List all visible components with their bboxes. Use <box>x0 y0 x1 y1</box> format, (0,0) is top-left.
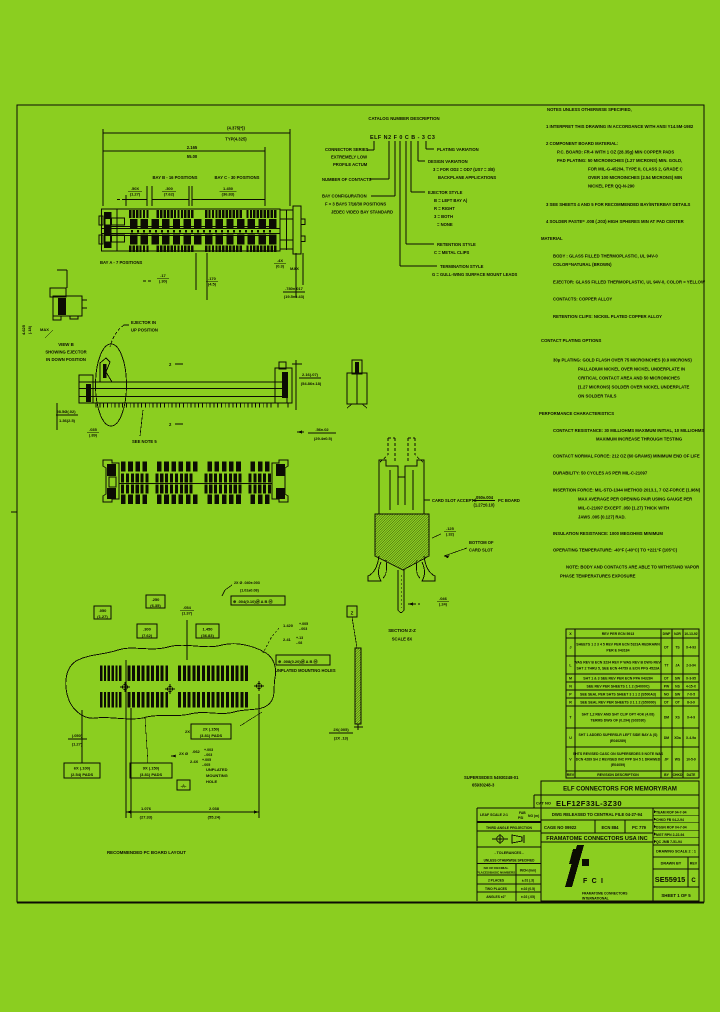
svg-text:SCALE 8X: SCALE 8X <box>392 637 413 642</box>
svg-text:N: N <box>569 685 572 689</box>
svg-text:SEE SEAL PER SHTS SHEET 3 1 1: SEE SEAL PER SHTS SHEET 3 1 1 2 (S500A3) <box>580 693 656 697</box>
svg-text:MAX: MAX <box>290 266 299 271</box>
svg-text:IN DOWN POSITION: IN DOWN POSITION <box>46 357 86 362</box>
svg-text:SE55915: SE55915 <box>655 875 685 884</box>
bottom view top pad row <box>121 462 270 472</box>
svg-text:(.050): (.050) <box>72 733 83 738</box>
svg-text:SEE REV PER SHEETS 1 1 2 (S400: SEE REV PER SHEETS 1 1 2 (S4000C) <box>586 685 649 689</box>
drawing scale row <box>653 845 699 857</box>
svg-text:OPERATING TEMPERATURE: -40°F (: OPERATING TEMPERATURE: -40°F (-40°C) TO … <box>553 548 678 553</box>
svg-text:COLOR=NATURAL (BROWN): COLOR=NATURAL (BROWN) <box>553 262 612 267</box>
svg-text:(7.62): (7.62) <box>164 191 175 196</box>
svg-text:BACKPLANE APPLICATIONS: BACKPLANE APPLICATIONS <box>438 175 496 180</box>
svg-text:(27.33): (27.33) <box>140 815 153 820</box>
svg-text:TERMS DWG OF (0.294) (S02030): TERMS DWG OF (0.294) (S02030) <box>590 718 645 722</box>
svg-text:+.13: +.13 <box>296 636 303 640</box>
svg-text:-.08: -.08 <box>296 641 302 645</box>
svg-text:DCN 4289 SH 2 REVISED INC PPP: DCN 4289 SH 2 REVISED INC PPP SH 5 1 DRA… <box>576 758 661 762</box>
svg-text:55.00: 55.00 <box>187 154 198 159</box>
svg-text:3 = BOTH: 3 = BOTH <box>434 214 453 219</box>
svg-text:JA: JA <box>675 664 680 668</box>
svg-text:MATERIAL: MATERIAL <box>541 236 563 241</box>
svg-text:MAX: MAX <box>40 327 49 332</box>
svg-text:THIRD ANGLE PROJECTION: THIRD ANGLE PROJECTION <box>486 826 533 830</box>
svg-text:28.5Ø(.02): 28.5Ø(.02) <box>56 409 76 414</box>
svg-text:CONTACT NORMAL FORCE: 212 OZ (: CONTACT NORMAL FORCE: 212 OZ (60 GRAMS) … <box>553 454 700 459</box>
svg-text:INCH (mm): INCH (mm) <box>520 869 536 873</box>
dwg released line <box>552 812 643 817</box>
svg-text:WAS REV B ECN 3234 REV P WAS R: WAS REV B ECN 3234 REV P WAS REV B DWG R… <box>574 661 662 665</box>
supersedes note <box>464 775 519 788</box>
svg-text:BAY C - 30 POSITIONS: BAY C - 30 POSITIONS <box>215 175 260 180</box>
dim .035 <box>87 427 99 438</box>
svg-text:QC JMB 7-51-94: QC JMB 7-51-94 <box>656 840 682 844</box>
svg-text:DRAWN BY: DRAWN BY <box>661 862 682 866</box>
svg-text:1.36(2.5): 1.36(2.5) <box>59 418 76 423</box>
svg-text:INSERTION FORCE: MIL-STD-1344: INSERTION FORCE: MIL-STD-1344 METHOD 201… <box>553 488 701 493</box>
svg-text:+.005: +.005 <box>202 758 211 762</box>
svg-text:RETENTION CLIPS: NICKEL PLATED: RETENTION CLIPS: NICKEL PLATED COPPER AL… <box>553 314 662 319</box>
svg-text:-.003: -.003 <box>204 753 212 757</box>
notes column <box>539 107 705 579</box>
svg-text:(19.5±0.43): (19.5±0.43) <box>284 294 305 299</box>
svg-text:+.003: +.003 <box>204 748 213 752</box>
svg-text:(6.35): (6.35) <box>150 603 161 608</box>
svg-text:FRAMATOME CONNECTORS USA INC: FRAMATOME CONNECTORS USA INC <box>546 836 647 842</box>
svg-text:UNLESS OTHERWISE SPECIFIED: UNLESS OTHERWISE SPECIFIED <box>484 859 535 863</box>
mounting hole target left <box>120 682 130 692</box>
dim .054 <box>180 605 194 660</box>
svg-text:EJECTOR STYLE: EJECTOR STYLE <box>428 190 463 195</box>
boxed dim .250 <box>146 595 165 660</box>
svg-text:1 INTERPRET THIS DRAWING IN: 1 INTERPRET THIS DRAWING IN ACCORDANCE W… <box>546 124 694 129</box>
svg-text:INTERNATIONAL: INTERNATIONAL <box>582 897 609 901</box>
svg-text:J: J <box>570 646 572 650</box>
svg-text:JP: JP <box>664 758 669 762</box>
svg-text:C: C <box>691 878 696 884</box>
svg-text:(54.86±.18): (54.86±.18) <box>301 381 322 386</box>
bay B label <box>153 175 198 180</box>
svg-text:R = RIGHT: R = RIGHT <box>434 206 455 211</box>
svg-text:CONTACT RESISTANCE: 30 MILLIOH: CONTACT RESISTANCE: 30 MILLIOHMS MAXIMUM… <box>553 428 704 433</box>
svg-text:(7.62): (7.62) <box>142 633 153 638</box>
top view pin band lower small <box>129 246 276 253</box>
svg-text:PROFILE ACTUM: PROFILE ACTUM <box>333 162 368 167</box>
svg-text:ANGLES ±2°: ANGLES ±2° <box>486 895 506 899</box>
svg-text:NS: NS <box>675 685 680 689</box>
part number ELF N2 F 0 C B - 3 C3 <box>370 135 435 141</box>
svg-text:(2X .13): (2X .13) <box>334 736 349 741</box>
svg-text:X-4-9: X-4-9 <box>687 716 695 720</box>
drawing border frame <box>11 105 704 903</box>
svg-text:BAY B - 16 POSITIONS: BAY B - 16 POSITIONS <box>153 175 198 180</box>
dim 2X hole top <box>222 581 260 596</box>
bay C label <box>215 175 260 180</box>
cat no line <box>536 799 622 808</box>
svg-text:+.005: +.005 <box>299 622 308 626</box>
section Z-Z housing top <box>379 460 424 514</box>
svg-text:DM: DM <box>664 716 669 720</box>
svg-text:LEAF SCALE 2:1: LEAF SCALE 2:1 <box>480 813 508 817</box>
drawn by row <box>653 857 699 887</box>
side view right end <box>275 362 292 408</box>
svg-text:BAY A - 7 POSITIONS: BAY A - 7 POSITIONS <box>100 260 142 265</box>
svg-text:±.02 (0.5): ±.02 (0.5) <box>521 887 535 891</box>
svg-text:.300: .300 <box>143 627 152 632</box>
leader plating variation <box>426 141 479 152</box>
svg-text:UNPLATED: UNPLATED <box>206 767 228 772</box>
svg-text:1.420: 1.420 <box>283 623 294 628</box>
dim .780/(19.5) <box>283 253 305 299</box>
svg-text:(4.375(*)): (4.375(*)) <box>227 126 245 131</box>
svg-text:6X (.100): 6X (.100) <box>74 766 91 771</box>
svg-text:30μ PLATING: GOLD FLASH OVER 7: 30μ PLATING: GOLD FLASH OVER 75 MICROINC… <box>553 358 692 363</box>
dim 4.625 max vertical <box>21 320 53 338</box>
leader number of contacts <box>322 141 389 182</box>
svg-text:2.41: 2.41 <box>283 637 292 642</box>
svg-text:(2.54) PADS: (2.54) PADS <box>71 772 94 777</box>
view B caption <box>45 342 86 362</box>
dim 4.375 overall <box>103 126 290 207</box>
svg-text:SHT 1 & 3 SEE REV PER ECN PPA: SHT 1 & 3 SEE REV PER ECN PPA 043284 <box>583 677 652 681</box>
bottom view bottom pad row <box>121 495 270 505</box>
card slot accepts label <box>424 495 520 508</box>
fcf top <box>231 596 285 605</box>
svg-text:CATALOG NUMBER DESCRIPTION: CATALOG NUMBER DESCRIPTION <box>368 116 439 121</box>
svg-text:CAGE NO 09922: CAGE NO 09922 <box>544 825 577 830</box>
svg-text:JAWS .005 (0.127) RAD.: JAWS .005 (0.127) RAD. <box>578 515 626 520</box>
svg-text:HOLE: HOLE <box>206 779 217 784</box>
svg-text:CONTACT PLATING OPTIONS: CONTACT PLATING OPTIONS <box>541 338 601 343</box>
svg-text:(.32): (.32) <box>446 531 455 536</box>
svg-text:10-13-92: 10-13-92 <box>684 632 697 636</box>
FCI logo <box>565 845 628 901</box>
leader connector series <box>325 141 374 167</box>
section Z-Z hatched body <box>375 514 429 570</box>
svg-text:SEE NOTE 5: SEE NOTE 5 <box>132 439 157 444</box>
svg-text:SHEET 1 OF 5: SHEET 1 OF 5 <box>661 893 691 898</box>
leader bay configuration <box>322 141 395 215</box>
svg-text:PSI: PSI <box>518 816 523 820</box>
svg-text:PER E 043184: PER E 043184 <box>606 648 629 652</box>
svg-text:DWG RELEASED TO CENTRAL FILE 0: DWG RELEASED TO CENTRAL FILE 04-27-94 <box>552 812 643 817</box>
ejector up label <box>110 320 158 347</box>
svg-text:NO OF DECIMAL: NO OF DECIMAL <box>484 866 509 870</box>
dim .170/(4.5) with extension lines <box>196 253 218 300</box>
svg-text:DM: DM <box>664 736 669 740</box>
svg-text:(1.37): (1.37) <box>182 610 193 615</box>
fcf unplated holes <box>275 655 336 673</box>
svg-text:(36.83): (36.83) <box>222 191 235 196</box>
svg-text:2.4X: 2.4X <box>190 759 199 764</box>
unplated hole callout <box>171 748 228 784</box>
svg-text:WS: WS <box>675 758 681 762</box>
dim 2.165 / 55.00 <box>103 145 265 206</box>
svg-text:SHOWING EJECTOR: SHOWING EJECTOR <box>45 350 86 355</box>
dim 2.16 right <box>292 360 322 410</box>
svg-text:-.003: -.003 <box>299 627 307 631</box>
svg-text:BODY : GLASS FILLED THERMOPLAS: BODY : GLASS FILLED THERMOPLASTIC, UL 94… <box>553 254 658 259</box>
bottom view lower field <box>121 485 271 494</box>
mounting hole target middle <box>165 684 175 694</box>
title block frame <box>534 781 699 901</box>
svg-text:REV PER ECN 5913: REV PER ECN 5913 <box>602 632 635 636</box>
svg-text:DATE: DATE <box>687 773 697 777</box>
svg-text:2.16(.07): 2.16(.07) <box>302 372 319 377</box>
svg-text:.17: .17 <box>160 273 166 278</box>
svg-text:PALLADIUM NICKEL OVER NICKEL U: PALLADIUM NICKEL OVER NICKEL UNDERPLATE … <box>578 367 685 372</box>
svg-text:65930248-3: 65930248-3 <box>472 783 495 788</box>
svg-text:PW: PW <box>664 685 670 689</box>
svg-text:3 SEE SHEETS 4 AND 5 FOR REC: 3 SEE SHEETS 4 AND 5 FOR RECOMMENDED BAY… <box>546 202 691 207</box>
svg-text:.046: .046 <box>439 596 448 601</box>
view B small profile <box>50 288 87 320</box>
svg-text:REV: REV <box>690 862 698 866</box>
svg-text:SHEETS 1 2 3 4 5 REV PER ECN 5: SHEETS 1 2 3 4 5 REV PER ECN 5323A REDRA… <box>576 643 660 647</box>
svg-text:(1.27 MICRONS) SOLDER OVER NIC: (1.27 MICRONS) SOLDER OVER NICKEL UNDERP… <box>578 385 689 390</box>
svg-text:.035: .035 <box>89 427 98 432</box>
approvals column <box>653 810 699 844</box>
section Z-Z centre pin <box>398 570 404 613</box>
dim .17/(.30) below <box>143 273 169 284</box>
svg-text:2 COMPONENT BOARD MATERIAL:: 2 COMPONENT BOARD MATERIAL: <box>546 141 618 146</box>
svg-text:SEE SEAL REV PER SHEETS 3 1 1: SEE SEAL REV PER SHEETS 3 1 1 2 (S50000) <box>580 701 656 705</box>
svg-text:2.165: 2.165 <box>187 145 198 150</box>
svg-text:4-15-X: 4-15-X <box>686 685 697 689</box>
drawing number <box>653 875 699 887</box>
svg-text:NOTE: BODY AND CONTACTS ARE AB: NOTE: BODY AND CONTACTS ARE ABLE TO WITH… <box>566 565 699 570</box>
svg-text:(1.27): (1.27) <box>97 614 108 619</box>
svg-text:.56±.02: .56±.02 <box>315 427 329 432</box>
svg-text:10-5-9: 10-5-9 <box>686 758 696 762</box>
sheet row <box>661 893 691 898</box>
detail balloon ellipse <box>96 344 127 426</box>
svg-text:G = GULL-WING SURFACE MOUNT LE: G = GULL-WING SURFACE MOUNT LEADS <box>432 272 517 277</box>
title text <box>563 787 677 793</box>
svg-text:FRAMATOME CONNECTORS: FRAMATOME CONNECTORS <box>582 892 628 896</box>
svg-text:2X: 2X <box>185 729 190 734</box>
svg-text:MAXIMUM INCREASE THROUGH TESTI: MAXIMUM INCREASE THROUGH TESTING <box>596 437 683 442</box>
svg-text:SHT 1,2 REV AND SHT CLIP OPT 4: SHT 1,2 REV AND SHT CLIP OPT 4OK (4.08) <box>582 713 655 717</box>
paste stencil bar <box>347 606 361 724</box>
svg-text:XDa: XDa <box>674 736 681 740</box>
svg-text:NJR: NJR <box>674 632 681 636</box>
svg-text:SHT 2 THRU 5, SEE ECN 44759 &: SHT 2 THRU 5, SEE ECN 44759 & ECN PPG 45… <box>576 666 660 670</box>
revision table <box>566 629 699 778</box>
boxed dim 1.450 <box>196 624 219 638</box>
leader ejector style <box>411 141 468 227</box>
svg-text:CRITICAL CONTACT AREA AND 50 M: CRITICAL CONTACT AREA AND 50 MICROINCHES <box>578 376 680 381</box>
svg-text:SHT 1 ADDED SUPERSLR LEFT SIDE: SHT 1 ADDED SUPERSLR LEFT SIDE BAY A (S) <box>579 733 658 737</box>
svg-text:.170: .170 <box>208 276 217 281</box>
svg-text:(.89): (.89) <box>89 432 98 437</box>
catalog number heading <box>368 116 439 121</box>
svg-text:DRAWING SCALE 2 : 1: DRAWING SCALE 2 : 1 <box>656 850 696 854</box>
svg-text:⊕ .008(0.20)Ⓜ A B Ⓜ: ⊕ .008(0.20)Ⓜ A B Ⓜ <box>278 658 318 664</box>
svg-text:DSGN ROP 04-7-94: DSGN ROP 04-7-94 <box>656 825 687 829</box>
svg-text:ELF CONNECTORS FOR MEMORY/RAM: ELF CONNECTORS FOR MEMORY/RAM <box>563 787 677 793</box>
dim .046 <box>408 596 449 607</box>
svg-text:FAB: FAB <box>519 811 526 815</box>
svg-text:Z: Z <box>351 611 354 616</box>
svg-text:JEDEC VIDEO BAY STANDARD: JEDEC VIDEO BAY STANDARD <box>331 210 393 215</box>
svg-text:F = 3 BAYS 7/16/30 POSITIONS: F = 3 BAYS 7/16/30 POSITIONS <box>325 202 386 207</box>
svg-text:PAD PLATING: 50 MICROINCHES (1: PAD PLATING: 50 MICROINCHES (1.27 MICRON… <box>557 158 682 163</box>
recommended pc board layout caption <box>107 850 186 855</box>
cage row <box>544 825 647 830</box>
right end view <box>347 360 367 408</box>
svg-text:.062: .062 <box>192 749 201 754</box>
pcb pad row upper <box>100 666 248 682</box>
svg-text:±.01 (.3): ±.01 (.3) <box>522 879 534 883</box>
leader design variation <box>418 141 496 180</box>
boxed dim .300 <box>137 624 157 638</box>
svg-text:SECTION Z-Z: SECTION Z-Z <box>388 628 416 633</box>
svg-text:BOTTOM OF: BOTTOM OF <box>469 540 494 545</box>
dim .300/(7.62) <box>152 186 189 206</box>
svg-text:= NONE: = NONE <box>437 222 453 227</box>
svg-text:CONTACTS: COPPER ALLOY: CONTACTS: COPPER ALLOY <box>553 297 612 302</box>
svg-text:(.24): (.24) <box>439 601 448 606</box>
svg-text:2.038: 2.038 <box>209 806 220 811</box>
bottom view left clip <box>103 460 119 502</box>
svg-text:UP POSITION: UP POSITION <box>131 328 158 333</box>
svg-text:(3.81) PADS: (3.81) PADS <box>200 733 223 738</box>
svg-text:ECN 884: ECN 884 <box>602 825 620 830</box>
svg-text:BAY CONFIGURATION: BAY CONFIGURATION <box>322 194 367 199</box>
svg-text:(36.83): (36.83) <box>201 633 214 638</box>
svg-text:RETENTION STYLE: RETENTION STYLE <box>437 242 476 247</box>
svg-text:B = LEFT BAY A): B = LEFT BAY A) <box>434 198 468 203</box>
dim .56 right <box>297 427 336 441</box>
svg-text:X-3-95: X-3-95 <box>686 677 696 681</box>
svg-text:MOUNTING: MOUNTING <box>206 773 228 778</box>
svg-text:NUMBER OF CONTACTS: NUMBER OF CONTACTS <box>322 177 372 182</box>
svg-text:2X Ø: 2X Ø <box>179 751 188 756</box>
svg-text:INSULATION RESISTANCE: 1000 ME: INSULATION RESISTANCE: 1000 MEGOHMS MINI… <box>553 531 663 536</box>
svg-text:2X (.150): 2X (.150) <box>203 727 220 732</box>
top view pin band upper small <box>129 210 276 218</box>
svg-text:DESIGN VARIATION: DESIGN VARIATION <box>428 159 468 164</box>
pcb pad row lower <box>100 692 248 708</box>
dim .125 <box>432 526 456 538</box>
svg-text:.125: .125 <box>446 526 455 531</box>
section Z-Z caption <box>388 628 416 642</box>
note flag 2 lower <box>169 422 183 427</box>
mounting hole target right <box>254 681 264 691</box>
svg-text:EJECTOR IN: EJECTOR IN <box>131 320 156 325</box>
svg-text:NICKEL PER QQ-N-290: NICKEL PER QQ-N-290 <box>588 184 635 189</box>
svg-text:ELF12F33L-3Z30: ELF12F33L-3Z30 <box>556 799 622 808</box>
top view pin band lower large <box>130 235 277 245</box>
svg-text:.050: .050 <box>99 608 108 613</box>
dim 285 lower left <box>56 403 78 430</box>
svg-text:1.450: 1.450 <box>223 186 234 191</box>
svg-text:3 = FOR OD2 = OD7 (US7 = 3/8): 3 = FOR OD2 = OD7 (US7 = 3/8) <box>433 167 495 172</box>
svg-text:TS: TS <box>675 646 680 650</box>
section Z-Z card dashed outline <box>380 438 423 462</box>
svg-text:BY: BY <box>664 773 669 777</box>
svg-text:4.625: 4.625 <box>21 324 26 335</box>
svg-text:-A-: -A- <box>181 784 187 789</box>
svg-text:XS: XS <box>675 716 680 720</box>
svg-text:MGT RPN 2-22-94: MGT RPN 2-22-94 <box>656 833 684 837</box>
svg-text:8-3-9: 8-3-9 <box>687 701 695 705</box>
datum A <box>177 780 190 790</box>
svg-text:PHASE TEMPERATURES EXPOSURE: PHASE TEMPERATURES EXPOSURE <box>560 574 636 579</box>
svg-text:CHKD: CHKD <box>673 773 683 777</box>
ejector lever <box>100 358 112 382</box>
svg-text:.780±.017: .780±.017 <box>285 286 304 291</box>
svg-text:X-4-9a: X-4-9a <box>686 736 696 740</box>
top view centre slot <box>102 227 281 236</box>
svg-text:REV: REV <box>567 773 575 777</box>
svg-text:C = METAL CLIPS: C = METAL CLIPS <box>434 250 470 255</box>
svg-text:CONNECTOR SERIES: CONNECTOR SERIES <box>325 147 369 152</box>
top view pin band upper large <box>130 219 277 228</box>
svg-text:CARD SLOT: CARD SLOT <box>469 548 493 553</box>
pcb outline blob <box>66 644 276 719</box>
svg-text:.4X: .4X <box>277 258 283 263</box>
svg-text:MIL-C-21097 EXCEPT .050 (1.27: MIL-C-21097 EXCEPT .050 (1.27) THICK WIT… <box>578 506 669 511</box>
svg-text:9X (.150): 9X (.150) <box>143 766 160 771</box>
svg-text:M: M <box>569 677 572 681</box>
boxed 9X pads <box>130 718 172 778</box>
svg-text:.050±.004: .050±.004 <box>475 495 494 500</box>
leader retention style <box>406 141 476 255</box>
boxed dim .050 <box>94 606 111 619</box>
svg-text:PLACES/BASIC NUMBERS: PLACES/BASIC NUMBERS <box>477 871 515 875</box>
svg-text:CARD SLOT ACCEPTS: CARD SLOT ACCEPTS <box>432 498 477 503</box>
side view body <box>79 375 287 408</box>
svg-text:PERFORMANCE CHARACTERISTICS: PERFORMANCE CHARACTERISTICS <box>539 411 614 416</box>
svg-text:EXTREMELY LOW: EXTREMELY LOW <box>331 155 367 160</box>
bay A label <box>100 260 142 265</box>
svg-text:R: R <box>569 701 572 705</box>
dim 1.420 right <box>263 622 308 653</box>
svg-text:- TOLERANCES -: - TOLERANCES - <box>494 851 524 855</box>
svg-text:TYP(4.325): TYP(4.325) <box>225 137 247 142</box>
svg-text:NOTES UNLESS OTHERWISE SPECIFI: NOTES UNLESS OTHERWISE SPECIFIED, <box>547 107 632 112</box>
svg-text:DURABILITY: 50 CYCLES AS PER M: DURABILITY: 50 CYCLES AS PER MIL-C-21097 <box>553 471 648 476</box>
svg-text:ELF N2 F 0 C B - 3 C3: ELF N2 F 0 C B - 3 C3 <box>370 135 435 141</box>
svg-text:(E040289): (E040289) <box>610 739 626 743</box>
note flags 2 <box>169 362 183 367</box>
svg-text:VIEW B: VIEW B <box>58 342 74 347</box>
boxed 2X pads mid <box>185 712 262 739</box>
svg-text:(E04059): (E04059) <box>611 763 625 767</box>
svg-text:NO (m): NO (m) <box>528 814 539 818</box>
svg-text:(29.4±0.5): (29.4±0.5) <box>314 436 333 441</box>
svg-text:(4.5): (4.5) <box>208 281 217 286</box>
dim .50X/1.27 <box>117 186 147 206</box>
company name <box>546 836 647 842</box>
svg-text:PLATING VARIATION: PLATING VARIATION <box>437 147 479 152</box>
svg-text:ON SOLDER TAILS: ON SOLDER TAILS <box>578 394 617 399</box>
svg-text:TEAM ROP 04-7-94: TEAM ROP 04-7-94 <box>656 811 687 815</box>
svg-text:(55.24): (55.24) <box>208 815 221 820</box>
svg-text:(1.27±0.10): (1.27±0.10) <box>474 503 496 508</box>
svg-text:X-4-93: X-4-93 <box>686 646 696 650</box>
svg-text:REVISION DESCRIPTION: REVISION DESCRIPTION <box>597 773 639 777</box>
svg-text:(.18): (.18) <box>27 325 32 334</box>
bottom of card slot label <box>444 540 494 558</box>
bottom view right clip <box>272 460 288 502</box>
bottom dim line <box>126 660 259 820</box>
svg-text:CAT NO: CAT NO <box>536 801 551 806</box>
svg-text:CHKD FB 04-2-94: CHKD FB 04-2-94 <box>656 818 684 822</box>
svg-text:MAX AVERAGE PER OPENING PAIR U: MAX AVERAGE PER OPENING PAIR USING GAUGE… <box>578 497 692 502</box>
